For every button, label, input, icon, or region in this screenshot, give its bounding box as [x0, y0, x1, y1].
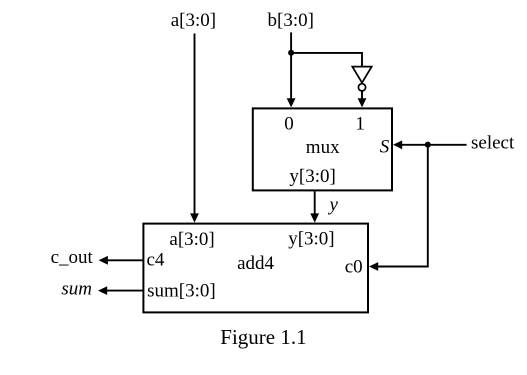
svg-text:a[3:0]: a[3:0]	[169, 229, 214, 250]
svg-text:select: select	[471, 132, 515, 153]
wire b input to mux 0	[287, 32, 296, 107]
svg-text:b[3:0]: b[3:0]	[268, 10, 314, 31]
wire sum out	[98, 286, 143, 295]
svg-text:sum: sum	[61, 279, 92, 300]
add4 U3	[143, 224, 368, 313]
svg-text:sum[3:0]: sum[3:0]	[147, 280, 216, 301]
svg-text:S: S	[380, 137, 390, 158]
svg-text:mux: mux	[306, 137, 340, 158]
svg-text:a[3:0]: a[3:0]	[171, 10, 216, 31]
svg-text:c4: c4	[147, 249, 165, 270]
wire c4 out	[99, 256, 144, 265]
svg-text:0: 0	[284, 114, 294, 135]
wire y mux to add4	[310, 191, 319, 222]
wire junction to inverter	[291, 53, 362, 67]
mux U2	[253, 108, 392, 190]
wire select junction to add4 c0	[369, 145, 428, 271]
svg-text:y[3:0]: y[3:0]	[289, 166, 335, 187]
wire inverter to mux 1	[358, 91, 367, 107]
wire select to mux S	[393, 140, 467, 149]
svg-text:c_out: c_out	[51, 247, 94, 268]
wire a input to add4	[190, 34, 199, 223]
junction dot on b	[288, 50, 294, 56]
svg-text:y[3:0]: y[3:0]	[288, 229, 334, 250]
svg-text:Figure 1.1: Figure 1.1	[220, 325, 306, 349]
svg-text:add4: add4	[237, 253, 274, 274]
svg-text:1: 1	[355, 114, 365, 135]
inverter U1	[352, 67, 371, 91]
svg-text:c0: c0	[345, 257, 363, 278]
junction dot on select	[425, 142, 431, 148]
svg-text:y: y	[328, 195, 339, 216]
